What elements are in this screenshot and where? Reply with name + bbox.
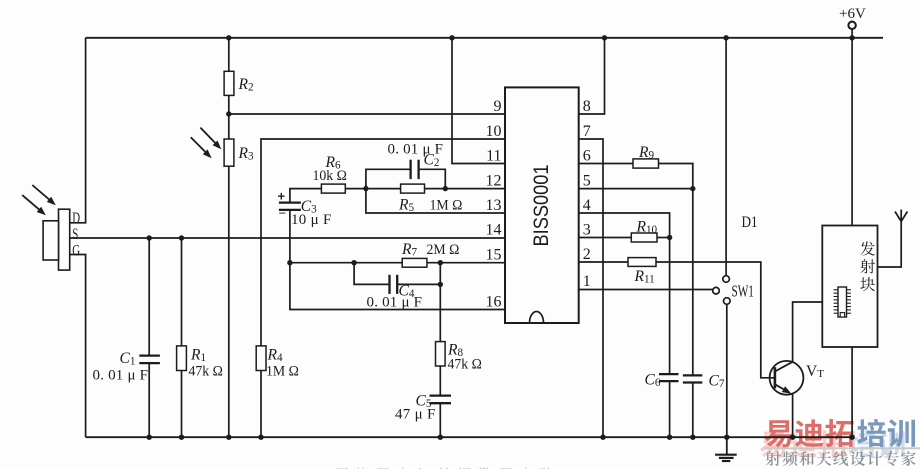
svg-text:1: 1 xyxy=(583,273,591,290)
wire R1 to ground rail xyxy=(181,371,183,438)
svg-text:6: 6 xyxy=(583,147,591,164)
resistor R7 xyxy=(402,258,427,267)
resistor R9 xyxy=(633,159,659,168)
watermark main text yiditui-peixun xyxy=(765,420,792,447)
wire R6 to R5 on pin 12 line xyxy=(345,188,400,190)
svg-text:2M Ω: 2M Ω xyxy=(427,242,460,259)
svg-text:7: 7 xyxy=(583,123,591,140)
terminal +6V xyxy=(848,22,855,29)
capacitor C6 xyxy=(659,373,679,375)
capacitor C1 xyxy=(139,354,160,356)
svg-text:0. 01 μ F: 0. 01 μ F xyxy=(93,368,149,384)
capacitor C5 xyxy=(430,394,452,396)
svg-text:10 μ F: 10 μ F xyxy=(291,212,332,228)
node pin4-R10-C6 junction xyxy=(667,235,672,240)
node C6 ground junction xyxy=(667,435,672,440)
wire SW1 down to ground rail xyxy=(726,304,728,437)
transistor collector xyxy=(775,362,793,372)
wire R3 down to ground rail xyxy=(228,166,230,437)
wire sensor S output line to IC pin 14 xyxy=(70,237,505,239)
node pin 8 rail junction xyxy=(602,35,607,40)
svg-text:8: 8 xyxy=(583,98,591,115)
wire pin 15 line to R7 xyxy=(290,262,402,264)
wire IC pin 4 down to R10 node xyxy=(579,213,670,238)
node emitter ground junction xyxy=(790,435,795,440)
svg-text:−: − xyxy=(279,206,287,221)
wire pin 16 to C3 junction xyxy=(290,263,505,310)
wire rail down to R2 xyxy=(228,38,230,72)
node C7 ground junction xyxy=(690,435,695,440)
svg-text:D1: D1 xyxy=(742,214,758,231)
wire transmitter to antenna xyxy=(878,221,902,267)
wire pin 13 from R6-R5 junction xyxy=(366,189,505,213)
svg-text:10k Ω: 10k Ω xyxy=(313,168,347,185)
wire R8 to C5 xyxy=(439,366,441,396)
resistor R8 xyxy=(436,342,446,366)
capacitor C4 xyxy=(388,275,390,294)
wire C4 node down to R8 xyxy=(439,284,441,341)
wire C1 to ground rail xyxy=(148,363,150,437)
node C1 ground junction xyxy=(147,435,152,440)
wire IC pin 5 to R9-C7 node xyxy=(579,188,693,190)
node R5-C2 junction pin 12 xyxy=(443,186,448,191)
svg-text:2: 2 xyxy=(583,246,591,263)
ground symbol xyxy=(726,437,728,454)
wire IC pin 7 down to ground rail xyxy=(579,139,603,437)
infrared arrows into sensor xyxy=(32,185,54,204)
wire R9 to pin 5 node xyxy=(659,164,693,189)
node C3-pin16-pin15 junction xyxy=(287,260,292,265)
wire sensor D pin to left vertical up to +6V rail xyxy=(70,38,86,223)
node S-C1 junction xyxy=(147,235,152,240)
wire IC pin 1 to SW1 xyxy=(579,289,713,291)
transistor Q1 VT circle xyxy=(770,361,804,395)
wire C2 left branch xyxy=(366,169,410,188)
svg-text:9: 9 xyxy=(494,98,502,115)
photoresistor R3 xyxy=(224,139,234,166)
svg-text:+: + xyxy=(278,189,286,204)
wire IC pin 8 up to +6V rail xyxy=(579,38,605,114)
node R2-R3 junction to pin 9 xyxy=(226,111,231,116)
watermark echo layer xyxy=(760,432,786,458)
wire R2 to R3 xyxy=(228,95,230,139)
node +6V rail to pin 11 xyxy=(449,35,454,40)
wire C6 to ground rail xyxy=(669,381,671,437)
watermark slogan text xyxy=(766,451,781,466)
wire rail down to IC pin 11 xyxy=(452,38,505,164)
wire R10 node down to C6 xyxy=(669,238,671,375)
node pin5-R9-C7 junction xyxy=(690,186,695,191)
resistor R1 xyxy=(177,346,187,371)
svg-text:D: D xyxy=(72,209,80,227)
node R4 ground junction xyxy=(258,435,263,440)
transmitter text fa-she-kuai xyxy=(860,241,874,255)
switch SW1 contacts xyxy=(713,287,720,294)
wire R7 to IC pin 15 xyxy=(427,262,505,264)
svg-text:0. 01 μ F: 0. 01 μ F xyxy=(367,295,423,311)
caption fragment (cut off at bottom edge) xyxy=(336,468,348,474)
node S-R1 junction xyxy=(179,235,184,240)
chip icon inside transmitter xyxy=(838,287,847,317)
wire R10 to pin 4 node xyxy=(657,237,670,239)
wire IC pin 2 to R11 xyxy=(579,261,628,263)
resistor R5 xyxy=(401,184,425,193)
svg-text:+6V: +6V xyxy=(839,6,866,22)
svg-text:0. 01 μ F: 0. 01 μ F xyxy=(388,142,444,158)
resistor R2 xyxy=(224,71,234,95)
wire bottom ground rail xyxy=(86,436,853,438)
node R1 ground junction xyxy=(179,435,184,440)
wire C4 right branch xyxy=(398,263,440,285)
svg-text:12: 12 xyxy=(486,172,502,189)
capacitor C3 electrolytic xyxy=(279,201,301,203)
wire C3 top to R6 xyxy=(290,189,322,203)
node pin 7 ground junction xyxy=(600,435,605,440)
wire IC pin 6 to R9 xyxy=(579,163,633,165)
node C5 ground junction xyxy=(438,435,443,440)
svg-text:1M Ω: 1M Ω xyxy=(430,197,463,214)
light arrows onto R3 xyxy=(200,128,219,148)
svg-text:47k Ω: 47k Ω xyxy=(189,363,223,380)
svg-text:13: 13 xyxy=(486,197,502,214)
svg-text:SW1: SW1 xyxy=(732,282,754,301)
wire C7 to ground rail xyxy=(692,383,694,438)
capacitor C7 xyxy=(683,374,702,376)
svg-text:BISS0001: BISS0001 xyxy=(530,165,553,247)
node +6V rail to R2 xyxy=(226,35,231,40)
svg-text:16: 16 xyxy=(486,293,502,310)
IC bottom notch xyxy=(530,312,544,323)
transmitter block box xyxy=(822,226,877,348)
svg-text:11: 11 xyxy=(486,147,501,164)
svg-text:5: 5 xyxy=(583,172,591,189)
node D1 rail junction xyxy=(723,35,728,40)
wire +6V rail down to transmitter block xyxy=(851,38,853,226)
node R6-R5-C2-pin13 junction xyxy=(363,186,368,191)
wire R5 to IC pin 12 xyxy=(425,188,506,190)
svg-text:1M Ω: 1M Ω xyxy=(266,363,299,380)
antenna xyxy=(895,212,901,222)
op-amp IC U1 BISS0001 body xyxy=(505,87,579,323)
PIR sensor BH9402 package xyxy=(59,209,70,270)
resistor R10 xyxy=(631,233,657,242)
node transmitter ground junction xyxy=(849,435,854,440)
svg-text:10: 10 xyxy=(486,123,502,140)
wire R11 to transistor base xyxy=(656,262,775,378)
wire R4 to ground rail xyxy=(260,371,262,438)
wire top +6V rail xyxy=(86,37,883,39)
node SW1 ground junction xyxy=(724,435,729,440)
wire junction to IC pin 9 xyxy=(229,113,505,115)
node R3 ground junction xyxy=(226,435,231,440)
wire sensor G pin to left vertical down to ground rail xyxy=(70,255,86,438)
node R7-C4 right junction xyxy=(438,260,443,265)
svg-text:3: 3 xyxy=(583,221,591,238)
wire S line down to R1 xyxy=(181,238,183,346)
resistor R4 xyxy=(256,346,266,371)
wire C2 right branch xyxy=(419,169,445,188)
svg-text:S: S xyxy=(72,225,78,243)
node R7-C4 left junction xyxy=(351,260,356,265)
capacitor C2 xyxy=(409,160,411,179)
svg-text:14: 14 xyxy=(486,221,502,238)
transistor base bar xyxy=(774,367,777,388)
resistor R11 xyxy=(628,258,656,267)
watermark underline xyxy=(765,447,920,449)
resistor R6 xyxy=(321,184,345,193)
svg-text:15: 15 xyxy=(486,247,502,264)
svg-text:47k Ω: 47k Ω xyxy=(448,356,482,373)
wire D1 +6V rail down to SW1 xyxy=(725,38,727,276)
wire C5 to ground rail xyxy=(439,403,441,437)
svg-text:G: G xyxy=(72,241,80,259)
wire IC pin 10 left and down to R4 xyxy=(261,139,505,346)
wire C3 bottom down to pin 15 node xyxy=(289,210,291,263)
node C4-R8 junction xyxy=(438,282,443,287)
wire S line down to C1 xyxy=(148,238,150,356)
wire pin 5 node down to C7 xyxy=(692,189,694,376)
svg-text:4: 4 xyxy=(583,197,591,214)
wire C4 left branch xyxy=(354,263,389,285)
wire IC pin 3 to R10 xyxy=(579,237,632,239)
svg-text:47 μ F: 47 μ F xyxy=(395,407,436,423)
node transmitter rail junction xyxy=(849,35,854,40)
wire transmitter bottom to ground rail xyxy=(851,347,853,437)
transistor emitter with arrow xyxy=(775,384,789,392)
